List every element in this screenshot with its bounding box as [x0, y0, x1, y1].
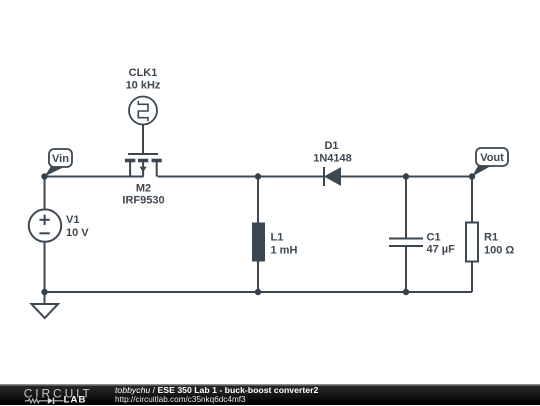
D1 triangle — [325, 168, 341, 185]
node Vout flag — [472, 148, 508, 177]
M2 drain lead — [156, 162, 158, 177]
node C1 bottom junction — [403, 289, 409, 295]
L1 labels — [271, 232, 298, 257]
svg-text:47 µF: 47 µF — [427, 244, 456, 256]
M2 drain bar — [152, 159, 162, 163]
wire R1 bottom lead — [471, 262, 473, 293]
wire Vin node to M2 source — [45, 176, 144, 178]
svg-text:1N4148: 1N4148 — [313, 153, 352, 165]
wire C1 bottom lead — [405, 246, 407, 292]
svg-text:100 Ω: 100 Ω — [484, 245, 514, 257]
footer bar — [0, 384, 540, 405]
node Vout junction — [469, 173, 475, 179]
M2 body lead — [142, 162, 144, 177]
svg-text:10 V: 10 V — [66, 227, 89, 239]
transistor M2 (PMOS IRF9530) — [125, 154, 162, 177]
svg-text:V1: V1 — [66, 214, 79, 226]
wire Vin node down to V1 plus — [44, 177, 46, 210]
CircuitLab logo — [22, 385, 97, 406]
voltage source V1 — [29, 209, 61, 241]
M2 source lead — [129, 162, 131, 177]
V1 labels — [66, 214, 89, 239]
capacitor C1 — [389, 239, 423, 247]
svg-text:IRF9530: IRF9530 — [122, 195, 164, 207]
svg-text:Vout: Vout — [480, 152, 504, 164]
svg-text:Vin: Vin — [52, 153, 69, 165]
M2 source bar — [125, 159, 135, 163]
inductor L1 — [252, 223, 265, 262]
node C1 top junction — [403, 173, 409, 179]
wire bottom rail — [45, 291, 473, 293]
M2 body bar — [138, 159, 148, 163]
svg-text:1 mH: 1 mH — [271, 245, 298, 257]
svg-text:10 kHz: 10 kHz — [126, 80, 161, 92]
wire L1 top lead — [257, 177, 259, 223]
wire R1 top lead — [471, 177, 473, 223]
wire CLK1 to M2 gate — [142, 125, 144, 155]
node Vin flag — [45, 149, 73, 177]
logo diode — [48, 398, 53, 404]
D1 cathode bar — [323, 167, 325, 186]
svg-text:C1: C1 — [427, 232, 441, 244]
M2 gate line — [128, 153, 158, 155]
node Vin junction — [41, 173, 47, 179]
M2 labels — [122, 183, 164, 207]
wire D1 anode to Vout node — [341, 176, 473, 178]
logo resistor squiggle — [25, 399, 48, 403]
node ground junction — [41, 289, 47, 295]
resistor R1 — [466, 223, 478, 262]
R1 labels — [484, 232, 514, 257]
diode D1 — [324, 167, 341, 186]
wire M2 drain to D1 cathode — [158, 176, 325, 178]
CLK1 labels — [126, 67, 161, 92]
clock source CLK1 — [129, 97, 157, 125]
node L1 bottom junction — [255, 289, 261, 295]
wire ground node to ground symbol — [44, 292, 46, 304]
svg-text:R1: R1 — [484, 232, 498, 244]
node L1 top junction — [255, 173, 261, 179]
svg-text:M2: M2 — [136, 183, 151, 195]
wire L1 bottom lead — [257, 262, 259, 293]
svg-text:L1: L1 — [271, 232, 284, 244]
wire V1 minus to ground node — [44, 242, 46, 292]
C1 labels — [427, 232, 456, 256]
wire C1 top lead — [405, 177, 407, 239]
ground — [32, 304, 59, 318]
svg-text:LAB: LAB — [64, 395, 87, 406]
svg-text:CLK1: CLK1 — [129, 67, 158, 79]
D1 labels — [313, 140, 352, 165]
svg-text:D1: D1 — [324, 140, 338, 152]
M2 body arrow — [140, 167, 147, 173]
